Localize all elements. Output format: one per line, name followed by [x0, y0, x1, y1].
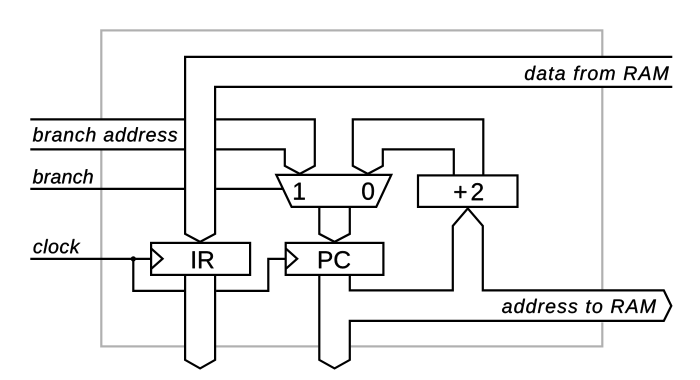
+2 label	[454, 183, 482, 200]
mux input label 1	[294, 183, 305, 200]
IR label	[193, 251, 214, 268]
label: clock	[34, 239, 81, 253]
PC clock input chevron	[286, 248, 298, 269]
wire: clock to PC (routed under IR)	[133, 259, 285, 291]
bus: IR output (instruction), exits bottom	[184, 274, 216, 368]
register IR box	[151, 243, 250, 275]
label: address to RAM	[502, 299, 656, 313]
label: branch address	[33, 127, 177, 141]
PC label	[319, 251, 350, 268]
boundary frame (CPU outline, gray)	[101, 30, 602, 346]
bus: data from RAM (into IR)	[184, 56, 672, 242]
junction dot (clock)	[131, 256, 136, 261]
register PC box	[286, 243, 384, 275]
mux input label 0	[362, 182, 374, 199]
mux: 2-to-1 multiplexer trapezoid	[276, 175, 391, 207]
wire: clock to IR	[30, 258, 151, 260]
bus: mux output into PC	[318, 206, 351, 242]
IR clock input chevron	[151, 248, 163, 269]
bus: +2 output to mux input 0	[352, 118, 485, 176]
bus: PC output, address to RAM and +2 feed (one net)	[318, 208, 671, 368]
label: data from RAM	[525, 66, 669, 80]
adder +2 box	[418, 175, 518, 207]
bus: branch address (into mux input 1)	[30, 118, 315, 173]
wire: branch (mux select)	[30, 188, 283, 190]
label: branch	[33, 169, 93, 183]
